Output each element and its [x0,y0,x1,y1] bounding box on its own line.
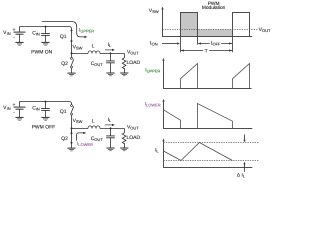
svg-text:SW: SW [76,45,83,50]
svg-text:L: L [109,43,112,48]
svg-text:LOAD: LOAD [127,135,141,141]
svg-text:-: - [13,109,15,114]
svg-text:+: + [13,102,16,107]
svg-text:SW: SW [152,9,159,14]
svg-text:+: + [13,27,16,32]
svg-text:Q2: Q2 [61,136,68,142]
svg-text:L: L [156,148,159,153]
svg-text:Q1: Q1 [60,109,67,115]
svg-text:L: L [109,118,112,123]
svg-text:OUT: OUT [262,28,271,33]
svg-text:UPPER: UPPER [147,68,161,73]
svg-text:L: L [92,119,95,125]
svg-text:Δ: Δ [237,173,241,179]
svg-text:IN: IN [36,32,40,37]
svg-text:IN: IN [7,31,11,36]
svg-text:Q1: Q1 [60,34,67,40]
svg-text:LOWER: LOWER [146,103,161,108]
svg-text:OUT: OUT [130,50,139,55]
svg-text:LOAD: LOAD [127,60,141,66]
svg-text:T: T [205,48,208,54]
svg-text:L: L [92,44,95,50]
svg-text:OFF: OFF [213,42,222,47]
svg-text:SW: SW [76,119,83,124]
svg-text:ON: ON [152,42,158,47]
svg-text:PWM OFF: PWM OFF [32,124,56,130]
svg-text:OUT: OUT [130,125,139,130]
svg-text:UPPER: UPPER [80,29,94,34]
svg-text:LOWER: LOWER [78,142,93,147]
svg-text:Modulation: Modulation [202,5,226,11]
svg-text:L: L [243,174,246,179]
svg-text:OUT: OUT [94,62,103,67]
svg-text:-: - [13,34,15,39]
svg-text:PWM ON: PWM ON [31,49,52,55]
svg-text:Q2: Q2 [61,61,68,67]
svg-text:IN: IN [7,106,11,111]
svg-text:OUT: OUT [94,137,103,142]
svg-text:IN: IN [36,107,40,112]
